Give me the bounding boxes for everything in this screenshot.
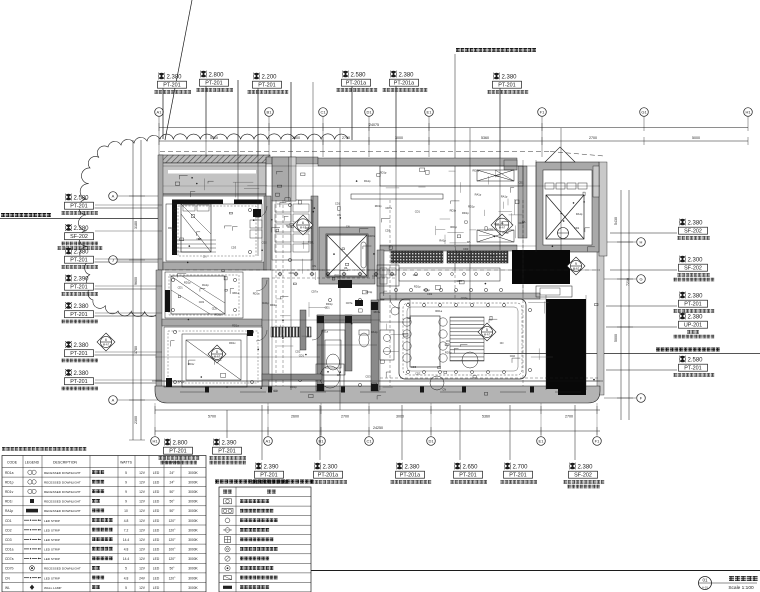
svg-text:CD2: CD2 (413, 273, 419, 277)
svg-text:RD1p: RD1p (423, 288, 430, 292)
top-left room fill (balcony) (161, 163, 266, 196)
svg-text:RA1p: RA1p (501, 194, 508, 198)
svg-text:12V: 12V (139, 548, 146, 552)
bedroom B (165, 272, 243, 318)
revision cloud (78, 134, 348, 317)
svg-text:4.8: 4.8 (124, 519, 129, 523)
svg-text:RECESSED DOWNLIGHT: RECESSED DOWNLIGHT (44, 490, 81, 494)
svg-text:12V: 12V (139, 471, 146, 475)
svg-text:SF-202: SF-202 (70, 234, 88, 240)
bottom dimension lines (155, 409, 600, 411)
svg-text:24250: 24250 (373, 426, 383, 430)
svg-text:RD1p: RD1p (215, 312, 222, 316)
svg-text:120°: 120° (169, 576, 177, 580)
structural thin lines across plan (163, 165, 536, 167)
svg-text:2.300: 2.300 (323, 465, 339, 471)
bath black fittings (317, 316, 324, 323)
svg-text:A-01: A-01 (702, 586, 708, 590)
downlight dots kitchen (394, 288, 397, 291)
svg-text:3000K: 3000K (188, 509, 198, 513)
svg-text:RA1p: RA1p (576, 212, 583, 216)
svg-text:UP-201: UP-201 (684, 323, 702, 329)
dining table (410, 316, 440, 367)
svg-text:PT-201: PT-201 (163, 83, 180, 89)
svg-text:LED STRIP: LED STRIP (44, 557, 60, 561)
svg-text:5: 5 (125, 471, 127, 475)
grid bubble A1 (264, 437, 273, 446)
svg-text:CD2: CD2 (372, 274, 378, 278)
svg-text:RD1p: RD1p (168, 226, 175, 230)
svg-text:Scale 1:100: Scale 1:100 (728, 585, 754, 591)
svg-text:3000: 3000 (396, 415, 404, 419)
legend main table (2, 456, 206, 592)
pantry small fittings (536, 286, 572, 297)
svg-text:RD1p: RD1p (326, 302, 333, 306)
svg-text:5000: 5000 (692, 136, 700, 140)
svg-text:PT-201a: PT-201a (318, 473, 338, 479)
grid bubble A1 (155, 108, 164, 117)
grid bubble E1 (537, 437, 546, 446)
svg-text:3000K: 3000K (188, 576, 198, 580)
right outer wall (597, 250, 604, 395)
svg-text:CN: CN (346, 225, 350, 229)
laundry small room (322, 330, 345, 375)
wardrobe left black strip (172, 201, 177, 255)
svg-text:SF-202: SF-202 (684, 266, 702, 272)
svg-text:2.580: 2.580 (351, 73, 367, 79)
downlight dots living (407, 304, 410, 307)
svg-text:120°: 120° (169, 538, 177, 542)
title block drawing number circle (699, 577, 712, 590)
bedroom C black accents (166, 378, 172, 387)
svg-text:RA1p: RA1p (178, 380, 185, 384)
svg-text:RA1p: RA1p (439, 239, 446, 243)
svg-text:WL: WL (467, 240, 471, 244)
pantry wall vertical (518, 166, 527, 238)
svg-text:2.200: 2.200 (262, 75, 278, 81)
svg-text:01: 01 (702, 578, 708, 583)
svg-text:LED STRIP: LED STRIP (44, 538, 60, 542)
closet room shelving (272, 200, 312, 260)
svg-text:CD1: CD1 (5, 519, 12, 523)
svg-text:CD1: CD1 (518, 180, 524, 184)
elevation callout 2.800 PT-201 (196, 71, 238, 157)
svg-text:SF-202: SF-202 (574, 473, 592, 479)
svg-text:PT-201: PT-201 (70, 285, 87, 291)
svg-text:5430: 5430 (614, 217, 618, 225)
grid bubble F (637, 394, 646, 403)
svg-text:7210: 7210 (626, 278, 630, 286)
grid bubble G1 (640, 108, 649, 117)
left outer wall lower (156, 270, 162, 392)
elevation callout 2.380 PT-201 (154, 73, 191, 139)
svg-text:RD1a: RD1a (305, 226, 312, 230)
svg-text:CD7a: CD7a (311, 290, 318, 294)
svg-text:PT-201: PT-201 (205, 81, 222, 87)
svg-text:12V: 12V (139, 519, 146, 523)
bathroom block walls (317, 315, 324, 391)
svg-text:F1: F1 (540, 110, 545, 115)
svg-text:LED: LED (153, 471, 160, 475)
louver stripes living (450, 317, 484, 361)
elevation callout 2.700 PT-201 (500, 405, 537, 484)
svg-text:4.8: 4.8 (124, 576, 129, 580)
svg-text:3000K: 3000K (188, 538, 198, 542)
fine texture lines in open areas (499, 210, 512, 212)
dumbwaiter X (546, 195, 584, 239)
grid bubble B1 (265, 108, 274, 117)
elevation callout 2.390 PT-201 (209, 410, 246, 464)
svg-text:LED: LED (153, 509, 160, 513)
svg-text:RD1v: RD1v (229, 341, 236, 345)
svg-text:RD1v: RD1v (5, 490, 14, 494)
svg-text:PT-201: PT-201 (70, 258, 87, 264)
svg-text:PT-201a: PT-201a (346, 81, 366, 87)
svg-text:14.4: 14.4 (123, 538, 130, 542)
svg-text:RD1p: RD1p (334, 274, 341, 278)
svg-text:RA1p: RA1p (502, 231, 509, 235)
svg-text:10: 10 (124, 509, 128, 513)
svg-text:2.580: 2.580 (74, 196, 90, 202)
grid bubble F1 (538, 108, 547, 117)
svg-text:RD1a: RD1a (232, 323, 239, 327)
svg-text:CD3: CD3 (5, 538, 12, 542)
grid bubble D1 (365, 108, 374, 117)
kitchen-living divider band (380, 293, 540, 299)
svg-text:LED: LED (153, 586, 160, 590)
svg-text:3000K: 3000K (188, 557, 198, 561)
elevation callout 2.380 PT-201 (62, 369, 161, 390)
door arcs various (256, 280, 267, 291)
section marker diamond 11 (491, 214, 513, 236)
svg-text:LED STRIP: LED STRIP (44, 519, 60, 523)
bedroom A (166, 204, 262, 261)
svg-text:SF-202: SF-202 (684, 229, 702, 235)
svg-text:RD1v: RD1v (374, 310, 381, 314)
svg-text:CD2: CD2 (427, 292, 433, 296)
bath vanity (380, 330, 394, 360)
svg-text:RA1p: RA1p (5, 509, 13, 513)
elevation callout 2.380 SF-202 (564, 405, 605, 488)
svg-text:PT-201: PT-201 (258, 83, 275, 89)
svg-text:WL: WL (495, 174, 499, 178)
svg-text:2700: 2700 (565, 415, 573, 419)
svg-text:CD7a: CD7a (461, 296, 468, 300)
svg-text:WL: WL (344, 266, 348, 270)
svg-text:LED: LED (153, 576, 160, 580)
X beams right (477, 170, 514, 242)
svg-text:RA1p: RA1p (371, 330, 378, 334)
svg-text:G: G (639, 277, 642, 282)
svg-text:2.580: 2.580 (688, 358, 704, 364)
svg-text:PT-201: PT-201 (70, 204, 87, 210)
roof overhang dashed line (160, 151, 550, 153)
svg-text:PT-201: PT-201 (684, 302, 701, 308)
elevation callout 2.380 PT-201 (606, 292, 714, 313)
svg-text:5: 5 (486, 328, 488, 332)
kitchen long corridor (380, 166, 523, 186)
top-right service block (536, 162, 599, 252)
svg-text:2.380: 2.380 (578, 465, 594, 471)
svg-text:RD1a: RD1a (270, 303, 277, 307)
elevation callout 2.380 PT-201 (62, 248, 161, 269)
svg-text:12V: 12V (139, 538, 146, 542)
elevation callout 2.300 PT-201a (310, 405, 347, 484)
svg-text:CD1: CD1 (325, 306, 331, 310)
svg-text:2.380: 2.380 (74, 343, 90, 349)
left grid bubbles (118, 195, 158, 197)
svg-text:PT-201: PT-201 (509, 473, 526, 479)
elevation callout 2.380 PT-201 (62, 341, 161, 362)
svg-text:CN: CN (337, 213, 341, 217)
section marker diamond 6 (97, 333, 115, 351)
svg-text:2600: 2600 (291, 415, 299, 419)
svg-text:RD1a: RD1a (253, 292, 260, 296)
elevation callout 2.580 PT-201 (606, 356, 714, 377)
svg-text:CD1: CD1 (574, 226, 580, 230)
svg-text:CN: CN (407, 316, 411, 320)
door arc bedroom A (255, 206, 267, 218)
svg-text:2.380: 2.380 (405, 465, 421, 471)
svg-text:RD1p: RD1p (375, 204, 382, 208)
legend sub-table (219, 487, 311, 592)
svg-text:RECESSED DOWNLIGHT: RECESSED DOWNLIGHT (44, 480, 81, 484)
svg-text:RD1i: RD1i (5, 500, 13, 504)
svg-text:CN: CN (442, 388, 446, 392)
svg-text:D1: D1 (428, 439, 434, 444)
elevation callout 2.380 UP-201 (606, 313, 714, 339)
svg-text:A1: A1 (266, 439, 272, 444)
svg-text:CD3: CD3 (385, 229, 391, 233)
section marker diamond 6 (293, 215, 313, 235)
grid bubble D1 (427, 437, 436, 446)
svg-text:2.800: 2.800 (209, 73, 225, 79)
svg-text:2.390: 2.390 (222, 441, 238, 447)
dashed ceiling grid lines (272, 269, 395, 271)
sofa circles (430, 376, 444, 390)
svg-text:PT-201a: PT-201a (400, 473, 420, 479)
mid elevator shaft (319, 227, 375, 284)
elevation callout 2.380 PT-201a (391, 405, 432, 484)
svg-text:2300: 2300 (134, 416, 138, 424)
left outer wall upper (158, 155, 163, 270)
elevation callout 2.390 PT-201 (62, 275, 161, 296)
grid bubble F1 (593, 437, 602, 446)
left black note curtain box (1, 213, 51, 217)
svg-text:LED: LED (153, 528, 160, 532)
svg-text:2.380: 2.380 (399, 73, 415, 79)
svg-text:14.4: 14.4 (123, 557, 130, 561)
svg-text:5700: 5700 (210, 136, 218, 140)
svg-text:RD1p: RD1p (473, 169, 480, 173)
svg-text:CD3: CD3 (365, 374, 371, 378)
svg-text:RECESSED DOWNLIGHT: RECESSED DOWNLIGHT (44, 509, 81, 513)
svg-text:2.380: 2.380 (74, 226, 90, 232)
elevation callout 2.800 PT-201 (159, 439, 200, 465)
svg-text:E1: E1 (427, 110, 433, 115)
svg-text:C1: C1 (366, 439, 372, 444)
svg-text:1780: 1780 (134, 346, 138, 354)
closet black square (253, 209, 261, 217)
svg-text:RA1p: RA1p (202, 283, 209, 287)
svg-text:3000K: 3000K (188, 528, 198, 532)
svg-text:PT-201: PT-201 (218, 449, 235, 455)
svg-text:12V: 12V (139, 557, 146, 561)
svg-text:2.380: 2.380 (74, 371, 90, 377)
grid bubble H1 (151, 437, 160, 446)
bed A (181, 204, 211, 252)
svg-text:CD2: CD2 (510, 354, 516, 358)
elevation callout 2.300 SF-202 (610, 256, 714, 282)
svg-text:CD7a: CD7a (346, 301, 353, 305)
dumbwaiter gable (545, 147, 575, 162)
svg-text:5: 5 (125, 567, 127, 571)
svg-text:RA1p: RA1p (364, 179, 371, 183)
svg-text:F1: F1 (595, 439, 600, 444)
svg-text:CD1: CD1 (488, 228, 494, 232)
right grid bubbles (604, 241, 636, 243)
svg-text:PT-201: PT-201 (498, 83, 515, 89)
svg-text:CD3: CD3 (199, 300, 205, 304)
section marker diamond 5 (478, 323, 496, 341)
kitchen cabinets hatched (391, 251, 443, 263)
louver grille corridor (271, 327, 311, 337)
top-left room hatched wall (159, 155, 270, 163)
svg-text:A1: A1 (157, 110, 163, 115)
svg-text:CD7a: CD7a (385, 206, 392, 210)
downlight dots corridor (278, 272, 281, 275)
svg-text:REMARKS: REMARKS (163, 461, 181, 465)
svg-text:2.390: 2.390 (74, 277, 90, 283)
svg-text:3000K: 3000K (188, 480, 198, 484)
svg-text:LED: LED (153, 567, 160, 571)
leader dots clutter (282, 319, 284, 321)
svg-text:CD3: CD3 (411, 365, 417, 369)
svg-text:5360: 5360 (482, 415, 490, 419)
svg-text:2.650: 2.650 (463, 465, 479, 471)
svg-text:M-A7: M-A7 (214, 355, 221, 359)
section marker diamond 9 (567, 257, 585, 275)
svg-text:CD1: CD1 (335, 201, 341, 205)
grid bubble E1 (425, 108, 434, 117)
svg-text:H: H (640, 240, 643, 245)
svg-text:3000K: 3000K (188, 471, 198, 475)
svg-text:24°: 24° (170, 471, 176, 475)
svg-text:2.380: 2.380 (74, 304, 90, 310)
svg-text:8: 8 (216, 350, 218, 354)
svg-text:PT-201: PT-201 (70, 312, 87, 318)
svg-text:2700: 2700 (341, 415, 349, 419)
svg-text:CD2: CD2 (5, 528, 12, 532)
powder partition walls (300, 310, 306, 350)
svg-text:CN: CN (5, 576, 10, 580)
svg-text:2700: 2700 (342, 136, 350, 140)
svg-text:PT-201a: PT-201a (394, 81, 414, 87)
svg-text:CD1: CD1 (178, 286, 184, 290)
kitchen-bath vertical wall (377, 250, 384, 300)
svg-text:CD2: CD2 (308, 240, 314, 244)
svg-text:RECESSED DOWNLIGHT: RECESSED DOWNLIGHT (44, 567, 81, 571)
svg-text:PT-201: PT-201 (169, 449, 186, 455)
svg-text:3180: 3180 (134, 221, 138, 229)
svg-text:WALL LAMP: WALL LAMP (44, 586, 61, 590)
svg-text:6: 6 (302, 221, 304, 225)
svg-text:9600: 9600 (134, 277, 138, 285)
svg-text:2.380: 2.380 (74, 250, 90, 256)
service block right walls (593, 166, 599, 197)
svg-text:9: 9 (125, 500, 127, 504)
left vertical dims (132, 140, 134, 440)
svg-text:50°: 50° (170, 500, 176, 504)
svg-text:LED: LED (153, 548, 160, 552)
svg-text:CD7b: CD7b (5, 567, 14, 571)
svg-text:5: 5 (125, 586, 127, 590)
svg-text:D1: D1 (366, 110, 372, 115)
toilet (359, 333, 369, 347)
bedroom C (164, 327, 262, 387)
service block cells (545, 183, 554, 189)
svg-text:RD1p: RD1p (462, 211, 469, 215)
corridor wall vertical (264, 196, 271, 270)
svg-text:2.380: 2.380 (688, 315, 704, 321)
svg-text:2.700: 2.700 (513, 465, 529, 471)
grid bubble H1 (744, 108, 753, 117)
svg-text:CD2: CD2 (212, 307, 218, 311)
svg-text:CD3: CD3 (289, 271, 295, 275)
svg-text:2.800: 2.800 (173, 441, 189, 447)
svg-text:CD2: CD2 (261, 241, 267, 245)
kitchen counter (399, 268, 500, 281)
svg-text:WATTS: WATTS (120, 461, 133, 465)
top note (curtain box lighting note) (456, 48, 536, 52)
svg-text:2.380: 2.380 (502, 75, 518, 81)
svg-text:RD1p: RD1p (450, 225, 457, 229)
legend table title (2, 447, 86, 451)
foyer upper gray wall (272, 157, 289, 201)
svg-text:C1: C1 (320, 110, 326, 115)
svg-text:CD3: CD3 (231, 245, 237, 249)
powder room fixtures (380, 300, 410, 322)
bedroom A divider walls (163, 262, 264, 270)
svg-text:6: 6 (105, 338, 107, 342)
svg-text:50°: 50° (170, 509, 176, 513)
grid bubble C1 (319, 108, 328, 117)
svg-text:12V: 12V (139, 490, 146, 494)
svg-text:CD1: CD1 (415, 209, 421, 213)
svg-text:E1: E1 (539, 439, 545, 444)
svg-text:LED: LED (153, 490, 160, 494)
svg-text:9: 9 (125, 490, 127, 494)
svg-text:24V: 24V (139, 576, 146, 580)
svg-text:CD3: CD3 (463, 247, 469, 251)
elevation callout 2.390 PT-201 (251, 405, 288, 484)
svg-text:LED: LED (153, 557, 160, 561)
sheet bottom rule (311, 570, 760, 572)
svg-text:9: 9 (125, 480, 127, 484)
elevation callout 2.200 PT-201 (248, 73, 292, 157)
svg-text:RD1v: RD1v (450, 209, 457, 213)
svg-text:24°: 24° (170, 480, 176, 484)
svg-text:12V: 12V (139, 509, 146, 513)
svg-text:M-A7: M-A7 (103, 343, 110, 347)
elevation callout 2.650 PT-201 (450, 405, 487, 484)
svg-text:7.2: 7.2 (124, 528, 129, 532)
top wall step right (504, 160, 517, 170)
svg-text:RD1a: RD1a (435, 309, 442, 313)
svg-text:RD1p: RD1p (489, 254, 496, 258)
svg-text:LED STRIP: LED STRIP (44, 528, 60, 532)
svg-text:H1: H1 (152, 439, 158, 444)
